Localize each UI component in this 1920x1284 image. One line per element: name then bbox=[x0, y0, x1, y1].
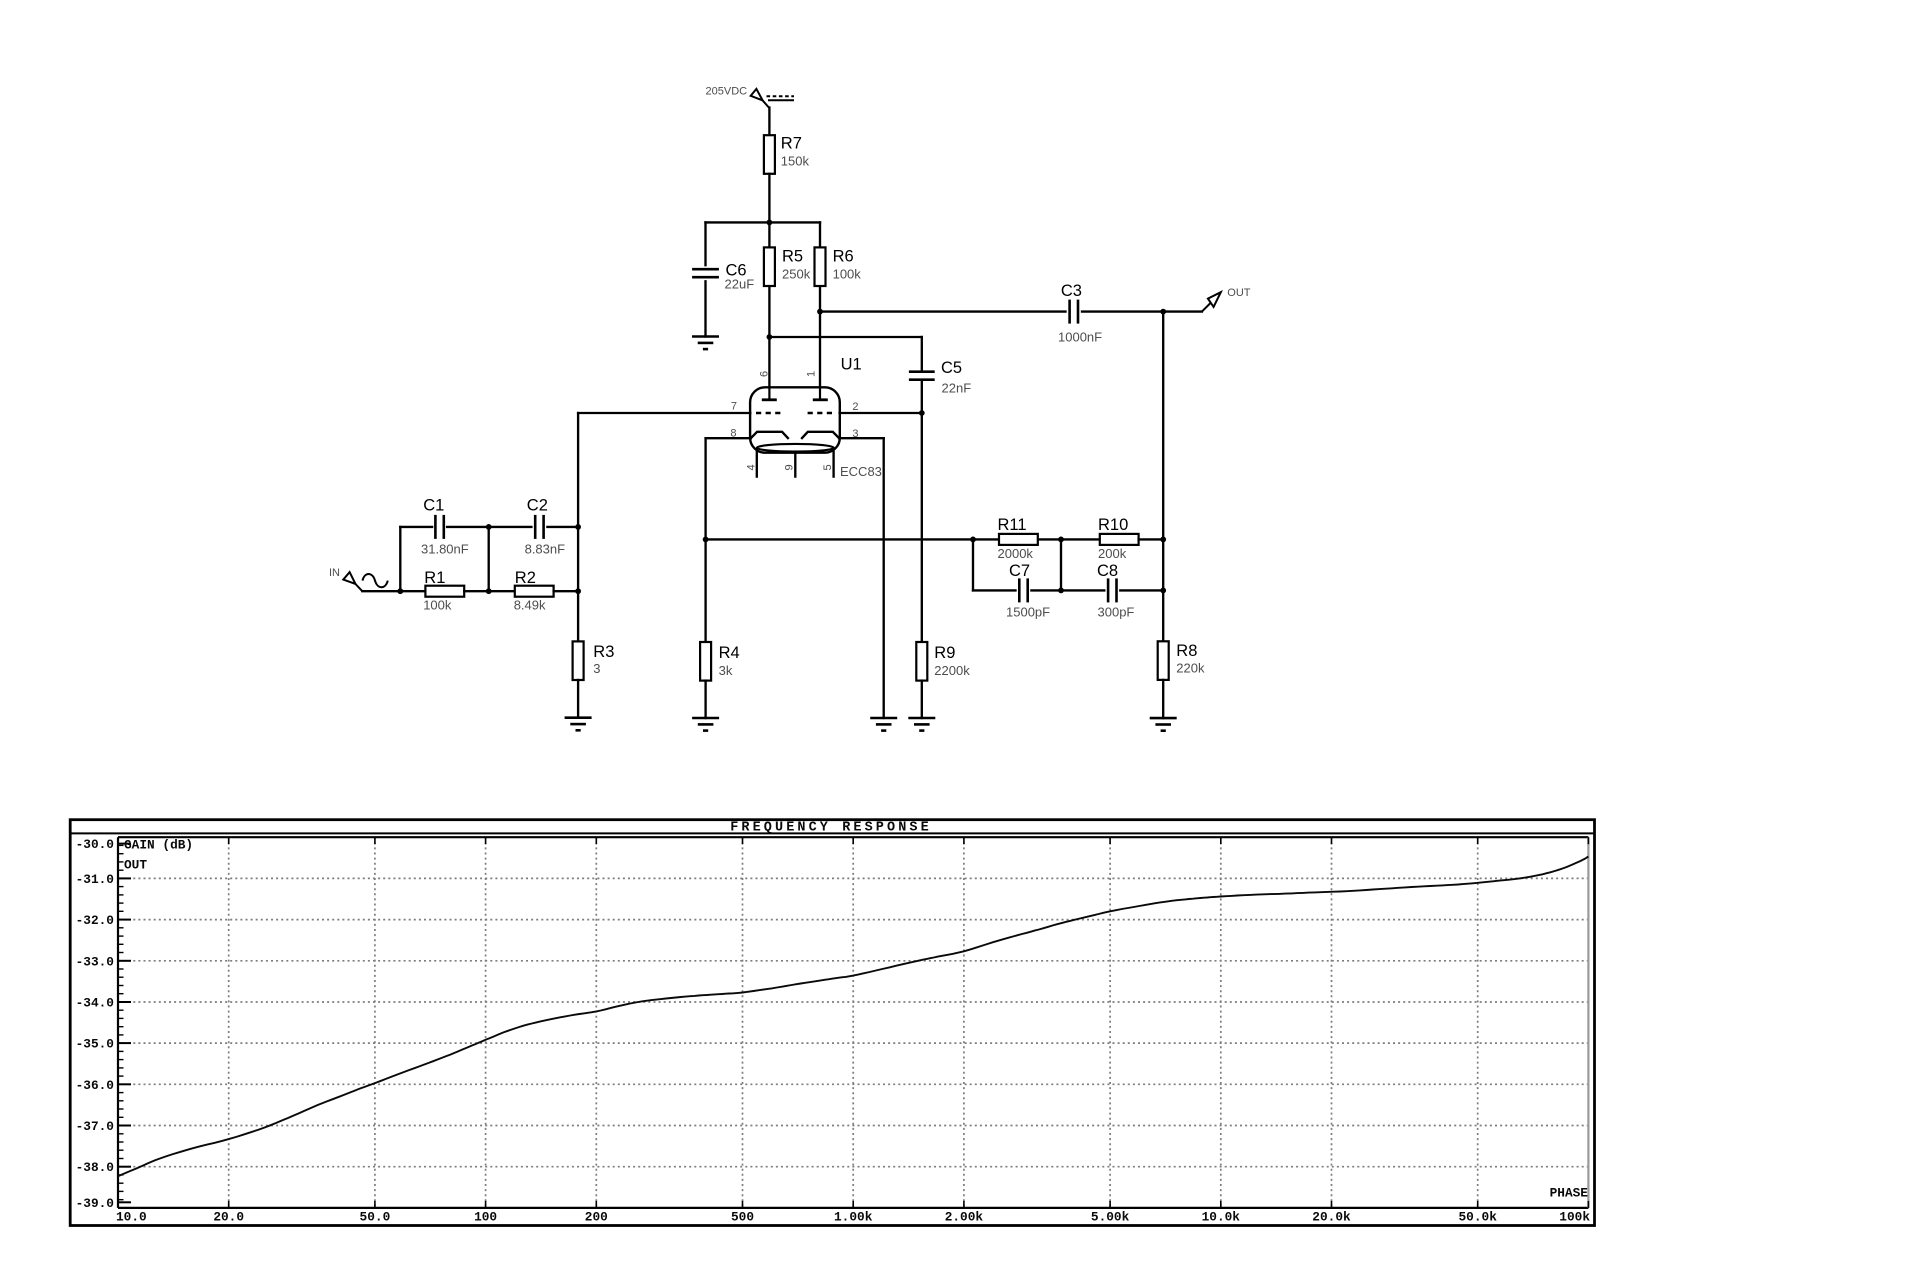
svg-text:500: 500 bbox=[731, 1210, 754, 1225]
wire R2 to R3 node bbox=[554, 590, 579, 592]
svg-text:R6: R6 bbox=[833, 248, 854, 266]
svg-text:IN: IN bbox=[329, 567, 340, 579]
node junction at R7 bottom bbox=[767, 220, 773, 226]
gain response curve bbox=[118, 857, 1588, 1177]
resistor R11 bbox=[973, 538, 1100, 540]
svg-text:8.49k: 8.49k bbox=[514, 598, 546, 613]
wire R7 to node bbox=[768, 174, 770, 223]
wire R6 branch bbox=[819, 222, 821, 400]
svg-text:U1: U1 bbox=[841, 356, 862, 374]
svg-text:C8: C8 bbox=[1097, 562, 1118, 580]
wire C1 row bbox=[400, 526, 578, 528]
resistor R1 bbox=[425, 586, 464, 597]
chart outer border bbox=[70, 820, 1594, 1226]
svg-text:50.0k: 50.0k bbox=[1458, 1210, 1497, 1225]
svg-text:3: 3 bbox=[593, 661, 600, 676]
svg-text:1.00k: 1.00k bbox=[834, 1210, 873, 1225]
pin numbers bbox=[730, 371, 858, 471]
svg-text:22nF: 22nF bbox=[942, 381, 972, 396]
svg-text:C3: C3 bbox=[1061, 282, 1082, 300]
svg-text:200: 200 bbox=[585, 1210, 608, 1225]
svg-text:-31.0: -31.0 bbox=[76, 872, 114, 887]
U1 left cathode bbox=[751, 432, 789, 439]
svg-text:PHASE: PHASE bbox=[1550, 1186, 1589, 1201]
svg-text:20.0k: 20.0k bbox=[1312, 1210, 1351, 1225]
OUT pin arrow bbox=[1202, 292, 1221, 311]
wire pin7 to grid rail bbox=[578, 413, 750, 591]
wire C8 row bbox=[1061, 539, 1163, 590]
y axis major ticks bbox=[118, 844, 131, 1203]
chart title bar separator bbox=[70, 832, 1594, 834]
svg-text:8.83nF: 8.83nF bbox=[525, 542, 566, 557]
ground below R3 bbox=[565, 718, 592, 731]
capacitor C1 bbox=[434, 515, 437, 539]
svg-text:-33.0: -33.0 bbox=[76, 954, 114, 969]
svg-text:5: 5 bbox=[822, 464, 834, 470]
U1 heater bbox=[757, 444, 834, 452]
resistor R10 bbox=[1100, 534, 1139, 545]
U1 heater pins 4 9 5 bbox=[757, 451, 834, 476]
power supply 205VDC arrow symbol bbox=[751, 89, 794, 108]
ground below pin3 bbox=[870, 718, 897, 731]
ground below R4 bbox=[692, 718, 719, 731]
wire R9 to ground bbox=[921, 681, 923, 718]
svg-text:6: 6 bbox=[758, 371, 770, 377]
svg-text:-35.0: -35.0 bbox=[76, 1037, 114, 1052]
svg-text:100k: 100k bbox=[833, 267, 862, 282]
junction pin8/R4/bus bbox=[703, 537, 709, 543]
capacitor C3 bbox=[1068, 300, 1071, 324]
svg-text:GAIN (dB): GAIN (dB) bbox=[124, 838, 193, 853]
svg-text:OUT: OUT bbox=[124, 858, 147, 873]
svg-text:3k: 3k bbox=[719, 663, 733, 678]
wire R1 to R2 bbox=[464, 590, 515, 592]
resistor R5 bbox=[764, 247, 775, 286]
wire R8 to ground bbox=[1162, 680, 1164, 718]
wire C6 branch bbox=[704, 222, 706, 336]
svg-text:R2: R2 bbox=[515, 569, 536, 587]
U1 left anode (pin 6) bbox=[762, 387, 777, 400]
svg-text:50.0: 50.0 bbox=[360, 1210, 391, 1225]
axis labels bbox=[76, 837, 1591, 1224]
capacitor C8 bbox=[1107, 578, 1110, 602]
wire anode node to C3 bbox=[820, 310, 1066, 312]
svg-text:205VDC: 205VDC bbox=[706, 86, 748, 98]
svg-text:4: 4 bbox=[745, 464, 757, 470]
wire node to R3 bbox=[577, 591, 579, 641]
resistor R2 bbox=[515, 586, 554, 597]
wire C1/C2 mid drop bbox=[488, 527, 490, 591]
plot box right edge (grey) bbox=[1587, 837, 1589, 1208]
junction at R6 bottom bbox=[817, 309, 823, 315]
ground below C6 bbox=[692, 337, 719, 350]
svg-text:C1: C1 bbox=[423, 497, 444, 515]
svg-text:2.00k: 2.00k bbox=[945, 1210, 984, 1225]
svg-text:2200k: 2200k bbox=[934, 663, 970, 678]
svg-text:-30.0: -30.0 bbox=[76, 837, 114, 852]
x axis ticks bbox=[229, 837, 1589, 1208]
capacitor C2 bbox=[534, 515, 537, 539]
svg-text:100k: 100k bbox=[423, 598, 452, 613]
svg-text:R8: R8 bbox=[1176, 642, 1197, 660]
grid horizontal dotted lines bbox=[118, 878, 1588, 1166]
svg-text:-32.0: -32.0 bbox=[76, 913, 114, 928]
wire C1 left drop bbox=[399, 527, 401, 591]
resistor R7 bbox=[764, 135, 775, 174]
svg-text:-38.0: -38.0 bbox=[76, 1160, 114, 1175]
svg-text:22uF: 22uF bbox=[725, 277, 755, 292]
svg-text:R9: R9 bbox=[934, 644, 955, 662]
capacitor C7 bbox=[1018, 578, 1021, 602]
svg-text:C2: C2 bbox=[527, 497, 548, 515]
wire supply to R7 bbox=[768, 108, 770, 136]
junction pin2/C5/R9 bbox=[919, 410, 925, 416]
wire pin2 to C5 bottom and R9 rail bbox=[840, 413, 922, 642]
svg-text:300pF: 300pF bbox=[1098, 605, 1135, 620]
wire node bus bbox=[706, 221, 821, 223]
svg-text:1500pF: 1500pF bbox=[1006, 605, 1050, 620]
svg-text:200k: 200k bbox=[1098, 546, 1127, 561]
capacitor C5 bbox=[921, 337, 923, 413]
svg-text:OUT: OUT bbox=[1227, 287, 1251, 299]
U1 right cathode bbox=[801, 432, 839, 439]
svg-text:2000k: 2000k bbox=[998, 546, 1034, 561]
svg-text:-39.0: -39.0 bbox=[76, 1196, 114, 1211]
svg-text:R11: R11 bbox=[998, 516, 1027, 534]
ground below R8 bbox=[1150, 718, 1177, 731]
grid vertical dotted lines bbox=[229, 837, 1478, 1208]
svg-text:100: 100 bbox=[474, 1210, 497, 1225]
wire output rail down to R8 bbox=[1162, 312, 1164, 642]
junction R5 bottom bbox=[767, 334, 773, 340]
svg-text:150k: 150k bbox=[781, 154, 810, 169]
svg-text:R10: R10 bbox=[1098, 516, 1128, 534]
svg-text:R1: R1 bbox=[424, 569, 445, 587]
svg-text:R5: R5 bbox=[782, 248, 803, 266]
tube U1 ECC83 bbox=[750, 387, 840, 452]
svg-text:100k: 100k bbox=[1559, 1210, 1590, 1225]
svg-text:-36.0: -36.0 bbox=[76, 1078, 114, 1093]
svg-text:FREQUENCY RESPONSE: FREQUENCY RESPONSE bbox=[730, 821, 932, 836]
chart: frequency response plot bbox=[70, 820, 1594, 1226]
U1 grids (dashed) bbox=[756, 412, 835, 414]
wire pin3 to ground rail bbox=[839, 438, 884, 718]
svg-text:C7: C7 bbox=[1009, 562, 1030, 580]
resistor R3 bbox=[573, 641, 584, 680]
wire IN to R1 bbox=[362, 590, 425, 592]
svg-text:1000nF: 1000nF bbox=[1058, 330, 1102, 345]
svg-text:31.80nF: 31.80nF bbox=[421, 542, 469, 557]
svg-text:220k: 220k bbox=[1176, 661, 1205, 676]
svg-text:10.0k: 10.0k bbox=[1202, 1210, 1241, 1225]
junction at OUT rail bbox=[1160, 309, 1166, 315]
svg-text:7: 7 bbox=[731, 401, 737, 413]
wire R4 to ground bbox=[704, 681, 706, 718]
wire cathode feedback bus bbox=[706, 538, 973, 540]
svg-text:ECC83: ECC83 bbox=[840, 464, 882, 479]
svg-text:C5: C5 bbox=[941, 359, 962, 377]
wire pin8 to cathode rail bbox=[706, 438, 751, 642]
resistor R8 bbox=[1158, 641, 1169, 680]
svg-text:R7: R7 bbox=[781, 135, 802, 153]
sine symbol bbox=[363, 574, 388, 587]
wire R5-bottom bus to C5 bbox=[769, 336, 921, 338]
svg-text:-34.0: -34.0 bbox=[76, 996, 114, 1011]
resistor R4 bbox=[700, 642, 711, 681]
svg-text:-37.0: -37.0 bbox=[76, 1119, 114, 1134]
wire R3 to ground bbox=[577, 680, 579, 718]
svg-text:20.0: 20.0 bbox=[213, 1210, 244, 1225]
svg-text:5.00k: 5.00k bbox=[1091, 1210, 1130, 1225]
y axis minor ruler ticks bbox=[118, 845, 124, 1199]
resistor R9 bbox=[916, 642, 927, 681]
svg-text:R4: R4 bbox=[719, 644, 740, 662]
wire R5 branch bbox=[768, 222, 770, 400]
wire C7 loop bbox=[973, 539, 1061, 590]
plot box: top, left, bottom black edges bbox=[118, 836, 1588, 838]
svg-text:10.0: 10.0 bbox=[116, 1210, 147, 1225]
svg-text:250k: 250k bbox=[782, 267, 811, 282]
wire C3 to OUT node bbox=[1082, 310, 1202, 312]
U1 right anode (pin 1) bbox=[813, 387, 828, 400]
svg-text:R3: R3 bbox=[593, 643, 614, 661]
input jack IN bbox=[343, 572, 362, 591]
resistor R6 bbox=[815, 247, 826, 286]
svg-text:9: 9 bbox=[784, 464, 796, 470]
ground below R9 bbox=[908, 718, 935, 731]
svg-text:1: 1 bbox=[805, 371, 817, 377]
svg-text:2: 2 bbox=[852, 401, 858, 413]
capacitor C6 bbox=[692, 268, 719, 271]
